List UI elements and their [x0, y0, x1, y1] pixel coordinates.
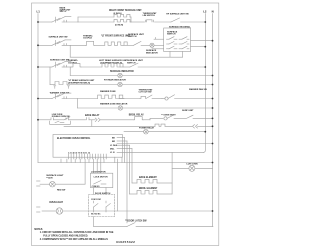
svg-text:BROIL ELEMENT: BROIL ELEMENT	[139, 188, 158, 190]
element: bake	[132, 179, 172, 183]
svg-text:(6 INCH): (6 INCH)	[115, 25, 123, 27]
svg-text:LOCK MOTOR: LOCK MOTOR	[94, 177, 108, 179]
connector pair rung5	[95, 118, 133, 122]
node merge rung1	[130, 17, 132, 22]
junction dot L1 rung1	[37, 21, 39, 23]
svg-text:COM COM: COM COM	[91, 199, 101, 201]
element: LF surface unit	[105, 42, 134, 45]
label: surface unit switch rung3	[127, 59, 144, 64]
oven cavity lamp PL5	[172, 165, 212, 171]
svg-text:L1 N: L1 N	[110, 152, 115, 154]
oven light lamp PL7	[42, 208, 213, 214]
junction dot L1 rung4	[37, 98, 39, 100]
junction dot N rung6	[212, 125, 214, 127]
label: thermocouple rung3	[68, 60, 78, 64]
wire tag left	[37, 181, 41, 186]
relay contact box below rung5	[50, 121, 71, 124]
wire tag N	[68, 86, 70, 89]
block row stubs left	[152, 37, 164, 48]
svg-text:RIGHT FRONT SURFACE UNIT: RIGHT FRONT SURFACE UNIT	[109, 9, 142, 12]
drop wire to rung6	[91, 120, 93, 127]
junction dot N busline	[212, 162, 214, 164]
svg-text:WARMER ZONE: WARMER ZONE	[100, 90, 116, 93]
element: RF surface unit outer coil	[78, 14, 131, 17]
rung6 wire	[64, 124, 213, 128]
broil relay bump	[134, 117, 150, 120]
svg-text:*LT FRONT SURFACE UNIT: *LT FRONT SURFACE UNIT	[101, 34, 131, 37]
junction dot L2 relay	[204, 131, 206, 133]
element: RF surface unit inner coil	[78, 19, 131, 22]
electronic oven control box	[53, 135, 122, 158]
svg-text:MDL: MDL	[110, 148, 115, 150]
junction dot L2 rung1	[204, 21, 206, 23]
drop wire row C	[77, 99, 79, 109]
EOC bottom pin comb	[68, 152, 106, 159]
svg-text:NC NO NC: NC NO NC	[91, 214, 101, 216]
drop wire rung2	[69, 45, 71, 57]
svg-text:SURFACE INDICATOR: SURFACE INDICATOR	[110, 70, 134, 73]
switch S6 rung3	[130, 63, 205, 67]
indicator lamp PL3	[118, 82, 213, 86]
svg-text:CUT OUT SW: CUT OUT SW	[139, 91, 152, 93]
switch S4 rung2	[134, 41, 150, 45]
svg-text:SURFACE UNIT SW: SURFACE UNIT SW	[50, 59, 69, 62]
svg-text:SURFACE UNIT SW: SURFACE UNIT SW	[49, 36, 68, 39]
element: left rear surface unit	[102, 64, 130, 67]
junction dot N oven light	[212, 210, 214, 212]
junction dot N lamp A	[212, 75, 214, 77]
pin drop wires	[61, 157, 122, 211]
svg-text:POWER RELAY: POWER RELAY	[139, 127, 155, 130]
junction dot N lamp C	[212, 107, 214, 109]
thermostat TH2	[164, 115, 186, 120]
label: left rear surface unit	[99, 59, 128, 64]
label: 4 burner models	[68, 79, 95, 84]
svg-text:ELECTRONIC OVEN CONTROL: ELECTRONIC OVEN CONTROL	[57, 138, 91, 140]
svg-text:LIM SWITCH: LIM SWITCH	[143, 15, 156, 17]
element: warmer bump row B	[50, 82, 118, 85]
label: thermal limiter	[143, 12, 158, 17]
svg-text:BK: BK	[112, 137, 115, 139]
EOC wire 6 to L2	[117, 151, 203, 153]
junction dot N rung4	[212, 98, 214, 100]
notes block	[34, 229, 114, 241]
element: broil lower	[130, 190, 173, 194]
junction dot L1 rung2	[37, 44, 39, 46]
label: oven door light sw	[52, 114, 70, 118]
svg-text:INDICATOR: INDICATOR	[146, 51, 158, 54]
EOC wire 4	[117, 145, 130, 194]
junction dot N wire3	[212, 143, 214, 145]
svg-text:1. CIRCUIT SHOWN WITH ALL CONT: 1. CIRCUIT SHOWN WITH ALL CONTROLS OFF A…	[40, 231, 114, 234]
junction dot L1 rung5	[37, 119, 39, 121]
block contacts	[167, 37, 190, 49]
node split rung1	[77, 17, 79, 22]
element: warmer zone	[98, 95, 124, 98]
label: surface unit switch rung2	[128, 33, 145, 38]
switch S1 bake surface	[38, 17, 78, 23]
wire x172 drop	[171, 152, 173, 194]
svg-text:SWITCH: SWITCH	[127, 62, 136, 64]
EOC wire 2	[117, 141, 127, 223]
power relay K1	[124, 129, 205, 134]
switch S3 left front	[38, 40, 86, 46]
label: surface light	[46, 174, 64, 179]
svg-text:BROIL RELAY: BROIL RELAY	[129, 113, 145, 116]
svg-text:2. COMPONENTS WITH ** DO NOT A: 2. COMPONENTS WITH ** DO NOT APPEAR ON A…	[40, 238, 109, 241]
thermal bump rung2	[86, 41, 105, 45]
svg-text:OVEN LIGHT: OVEN LIGHT	[49, 202, 63, 204]
bottom rung wire	[94, 223, 213, 227]
svg-text:BAKE RELAY: BAKE RELAY	[85, 114, 100, 117]
switch S10 rung5 right	[187, 115, 213, 118]
rail L1	[37, 10, 41, 163]
wire y57	[70, 56, 183, 58]
surface indicator lamp PL1	[150, 43, 164, 47]
switch S9 rung5	[64, 117, 86, 120]
lamp bus wire	[38, 162, 213, 164]
wire tag P	[54, 86, 56, 89]
block exit wire to N	[191, 40, 213, 42]
svg-text:** DOOR LATCH SW: ** DOOR LATCH SW	[125, 220, 147, 223]
svg-text:RT REAR INDICATOR: RT REAR INDICATOR	[104, 79, 126, 82]
indicator lamp PL4	[78, 106, 213, 110]
drop wire row A	[69, 67, 71, 76]
svg-text:WARMER FAN SW: WARMER FAN SW	[189, 88, 207, 91]
junction dot L2 block	[204, 46, 206, 48]
drop wire row B	[49, 67, 51, 85]
surface light lamp PL6	[40, 181, 85, 187]
svg-text:**120V: **120V	[46, 177, 53, 179]
svg-text:L1: L1	[37, 10, 41, 14]
svg-text:(4 BURNER MODELS): (4 BURNER MODELS)	[68, 81, 90, 84]
lock motor box	[90, 173, 112, 188]
junction dot N block	[212, 40, 214, 42]
svg-text:SW 1-2: SW 1-2	[60, 11, 68, 13]
contact ticks rung5	[87, 118, 96, 120]
svg-text:WARMER ZONE INDICATOR: WARMER ZONE INDICATOR	[100, 102, 128, 105]
svg-text:RED 5W: RED 5W	[57, 190, 66, 192]
EOC wire 1	[117, 138, 125, 163]
switch S7 warmer zone	[38, 93, 98, 99]
svg-text:RF SURFACE UNIT SW: RF SURFACE UNIT SW	[166, 12, 188, 15]
EOC pin labels	[110, 137, 118, 154]
door switch internals	[91, 199, 110, 215]
thermal limiter TL1	[131, 20, 171, 22]
svg-text:FULLY OPEN CLOSED AND UNLOCKED: FULLY OPEN CLOSED AND UNLOCKED.	[43, 235, 88, 238]
switch S5 left rear	[38, 62, 72, 68]
junction dot N rung5	[212, 118, 214, 120]
switch box rung5	[38, 118, 64, 120]
svg-text:SWITCH: SWITCH	[128, 36, 137, 38]
svg-text:L1 DLB: L1 DLB	[110, 145, 118, 147]
svg-text:BAKE ELEMENT: BAKE ELEMENT	[139, 176, 157, 179]
wire below door switch	[93, 217, 95, 227]
switch S8 thermal cut out	[119, 95, 162, 99]
switch S2 right front	[171, 18, 205, 22]
EOC wire 5	[117, 149, 132, 184]
svg-text:1 2 3 4 5 6 7 8 9 10 11 12: 1 2 3 4 5 6 7 8 9 10 11 12	[68, 152, 90, 155]
block exit wire to L2	[191, 46, 206, 48]
junction dot L1 rung3	[37, 66, 39, 68]
rail N	[212, 10, 214, 227]
svg-text:NOTES: NOTES	[34, 229, 42, 231]
label: thermocouple	[83, 35, 93, 39]
label: right front surface unit	[109, 9, 142, 15]
svg-text:COM NO: COM NO	[92, 186, 100, 188]
label: thermal cut out	[139, 88, 154, 93]
thermostat TH1	[162, 95, 213, 100]
svg-text:DOUBLE OVEN SW: DOUBLE OVEN SW	[52, 116, 70, 118]
door switch box dashed	[89, 195, 115, 217]
junction dot N lamp B	[212, 84, 214, 86]
jog rung5	[150, 118, 163, 119]
rail L2	[203, 10, 207, 153]
label: bake surface unit switch	[60, 6, 72, 13]
wires between boxes	[94, 188, 106, 195]
svg-text:L2: L2	[203, 10, 207, 14]
block bottom stubs	[170, 52, 183, 58]
label: surface indicator	[146, 49, 158, 54]
svg-text:SWITCH: SWITCH	[167, 34, 176, 36]
junction dot L2 rung3	[204, 66, 206, 68]
EOC wire 3 to N	[117, 143, 213, 145]
indicator lamp PL2	[70, 73, 212, 77]
svg-text:SURF UNIT: SURF UNIT	[182, 110, 194, 112]
thermal bump rung3	[72, 63, 102, 67]
wire tag oven light	[37, 207, 41, 212]
svg-text:COUPLE: COUPLE	[83, 38, 92, 40]
svg-text:N: N	[212, 10, 214, 14]
border frame	[32, 3, 219, 246]
svg-text:316255322: 316255322	[116, 240, 135, 244]
svg-text:BR: BR	[112, 141, 115, 143]
